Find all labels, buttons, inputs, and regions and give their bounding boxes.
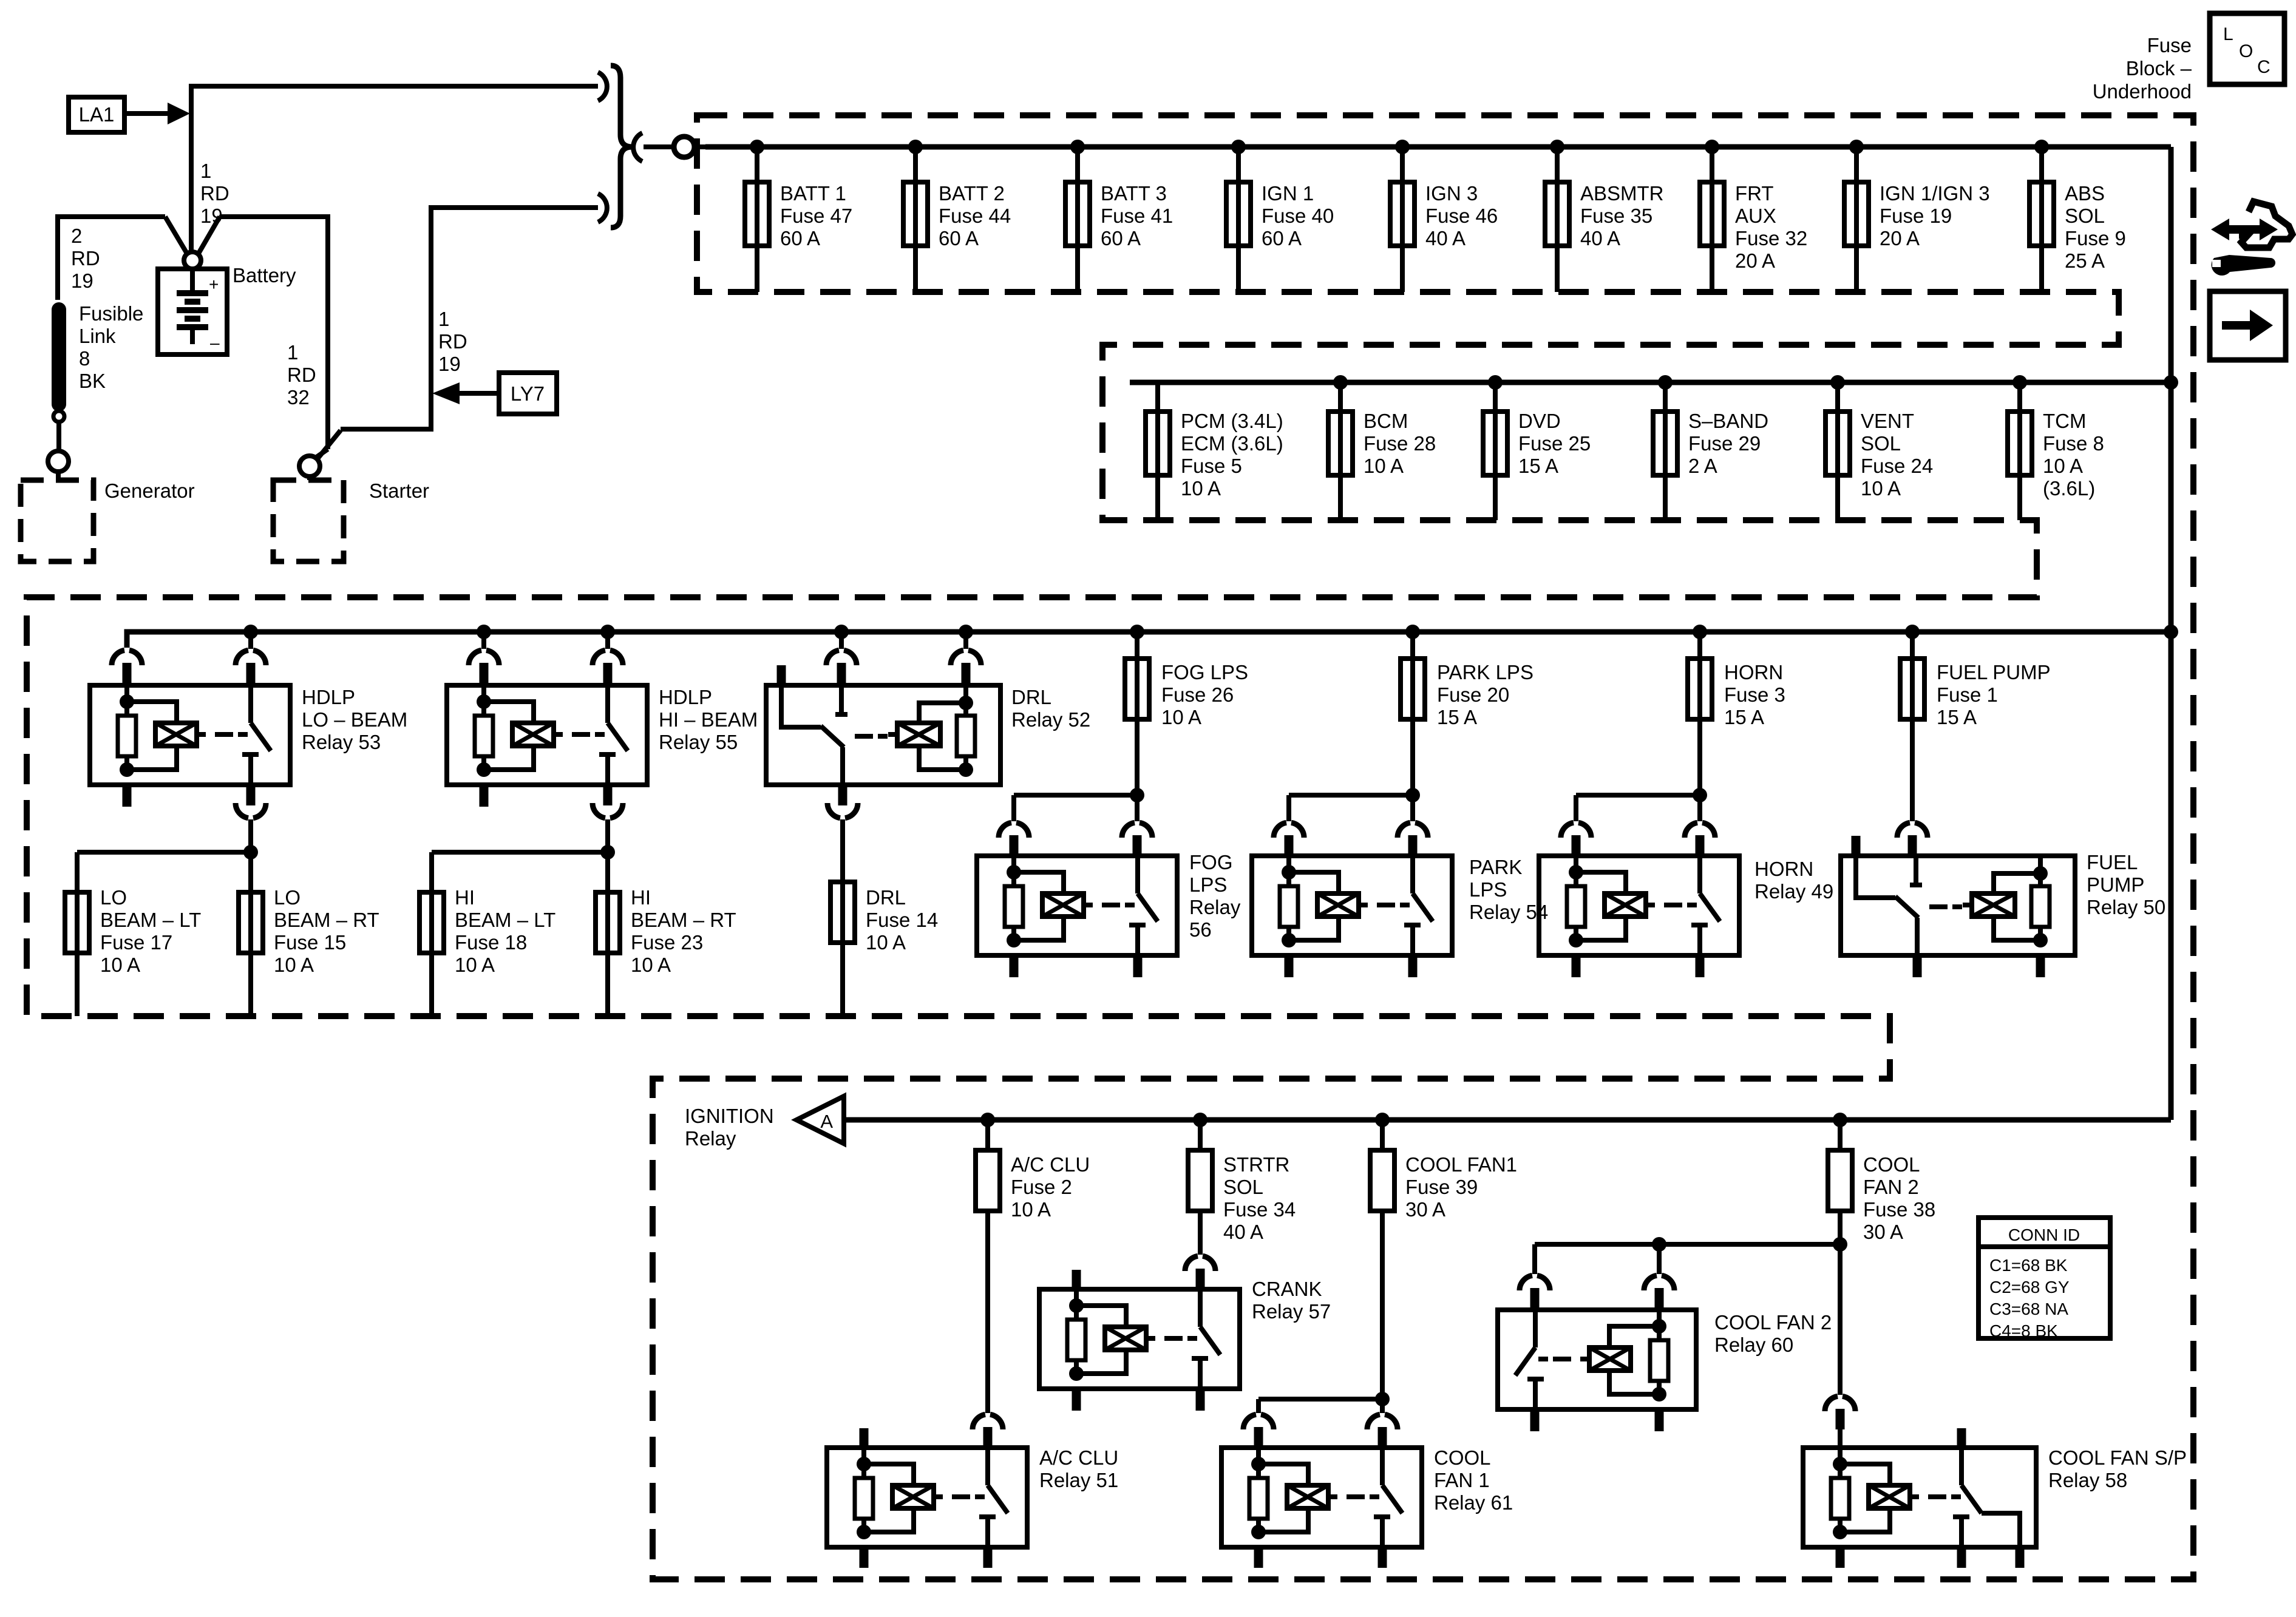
wire fuse 2327 to relay pins — [1274, 719, 1428, 856]
svg-text:BATT 2: BATT 2 — [939, 182, 1005, 205]
svg-text:Battery: Battery — [233, 264, 296, 286]
fusible link 8 BK — [52, 302, 66, 450]
node HI BEAM feed — [600, 845, 615, 859]
svg-text:Fuse 34: Fuse 34 — [1223, 1198, 1296, 1221]
svg-text:A/C CLU: A/C CLU — [1011, 1153, 1090, 1176]
label fuse 14 — [866, 886, 938, 954]
svg-text:56: 56 — [1189, 918, 1212, 941]
svg-text:IGNITION: IGNITION — [685, 1105, 774, 1127]
label fuse TCM — [2043, 410, 2104, 500]
svg-text:BEAM – LT: BEAM – LT — [455, 909, 555, 931]
pass-through terminal — [674, 137, 695, 157]
svg-text:Relay 50: Relay 50 — [2087, 896, 2165, 918]
wire fuse column 2565 — [1555, 147, 1560, 292]
svg-text:2: 2 — [71, 225, 82, 247]
svg-text:15 A: 15 A — [1518, 455, 1558, 477]
label fuse IGN 3 — [1425, 182, 1498, 249]
label fuse A/C CLU — [1011, 1153, 1090, 1221]
wire fuse column 3363 — [2039, 147, 2044, 292]
junction node bus1 x2820 — [1705, 140, 1719, 154]
svg-text:BK: BK — [79, 370, 106, 392]
svg-text:40 A: 40 A — [1425, 227, 1466, 249]
svg-text:Fusible: Fusible — [79, 302, 143, 325]
label relay 56 — [1189, 851, 1241, 941]
svg-text:IGN 1/IGN 3: IGN 1/IGN 3 — [1880, 182, 1990, 205]
wire fuse column 1247 — [755, 147, 759, 292]
bus B+ top fuse row — [705, 144, 2171, 150]
wire fuse column 2800 — [1697, 632, 1702, 659]
junction node bus3/right bus — [2164, 625, 2178, 639]
svg-text:IGN 3: IGN 3 — [1425, 182, 1478, 205]
svg-text:Fuse 44: Fuse 44 — [939, 205, 1011, 227]
svg-text:C2=68 GY: C2=68 GY — [1989, 1278, 2070, 1297]
junction node ign bus x2277 — [1375, 1113, 1390, 1127]
svg-text:LA1: LA1 — [79, 103, 115, 126]
svg-text:TCM: TCM — [2043, 410, 2086, 432]
svg-text:10 A: 10 A — [1011, 1198, 1051, 1221]
label relay 61 — [1434, 1446, 1513, 1514]
label fuse PCM (3.4L) — [1181, 410, 1283, 500]
svg-text:10 A: 10 A — [455, 954, 495, 976]
label relay 57 — [1252, 1278, 1331, 1323]
relay 53 coil ground stub — [123, 785, 132, 807]
svg-text:HDLP: HDLP — [302, 686, 355, 708]
wire fuse 38 to relays 60/58 — [1520, 1211, 1855, 1448]
wire fuse column 3327 — [2017, 382, 2022, 520]
relay 53 HDLP LO-BEAM — [90, 685, 290, 785]
wire to generator branch — [58, 217, 188, 300]
label 2 RD 19 — [71, 225, 100, 292]
svg-text:8: 8 — [79, 347, 90, 370]
svg-text:Fuse 40: Fuse 40 — [1262, 205, 1334, 227]
svg-text:Relay 49: Relay 49 — [1754, 880, 1833, 903]
starter dashed box — [273, 480, 344, 561]
svg-text:HDLP: HDLP — [659, 686, 712, 708]
bus relay feed — [127, 632, 2171, 648]
svg-text:ABS: ABS — [2065, 182, 2105, 205]
svg-text:DVD: DVD — [1518, 410, 1561, 432]
relay 52 switch output — [827, 785, 858, 882]
wire fuse 34 to relay 57 switch — [1185, 1211, 1215, 1289]
relay 55 coil ground stub — [480, 785, 489, 807]
svg-text:Fuse 32: Fuse 32 — [1735, 227, 1807, 249]
label 1 RD 19 (starter feed) — [438, 308, 467, 375]
svg-text:Fuse 23: Fuse 23 — [631, 931, 703, 954]
fuse PARK LPS — [1401, 659, 1425, 719]
svg-text:Generator: Generator — [104, 480, 195, 502]
fuse A/C CLU Fuse 2 — [976, 1120, 1000, 1211]
svg-text:–: – — [210, 333, 220, 352]
fuse FRT AUX — [1700, 182, 1724, 246]
svg-text:LO: LO — [274, 886, 301, 909]
svg-text:10 A: 10 A — [866, 931, 906, 954]
svg-text:BEAM – RT: BEAM – RT — [274, 909, 379, 931]
label relay 53 — [302, 686, 407, 753]
svg-text:ECM (3.6L): ECM (3.6L) — [1181, 432, 1283, 455]
svg-text:LPS: LPS — [1189, 873, 1227, 896]
svg-text:1: 1 — [438, 308, 449, 330]
fuse ABS SOL — [2029, 182, 2054, 246]
svg-text:Fuse 26: Fuse 26 — [1161, 683, 1234, 706]
svg-text:Fuse 18: Fuse 18 — [455, 931, 527, 954]
wire bus to relay 52 coil — [951, 625, 981, 685]
arrow from LY7 — [432, 382, 499, 404]
wire battery positive to splice (top) — [191, 86, 598, 252]
svg-text:FAN 2: FAN 2 — [1863, 1176, 1919, 1198]
svg-text:60 A: 60 A — [939, 227, 979, 249]
node LO BEAM feed — [243, 845, 258, 859]
svg-text:C4=8 BK: C4=8 BK — [1989, 1321, 2058, 1340]
relay 54 PARK LPS — [1252, 856, 1452, 955]
svg-text:Fuse 17: Fuse 17 — [100, 931, 172, 954]
junction node bus3 x2327 — [1405, 625, 1420, 639]
svg-text:FOG LPS: FOG LPS — [1161, 661, 1248, 683]
svg-text:Fuse 3: Fuse 3 — [1724, 683, 1785, 706]
svg-text:Fuse 28: Fuse 28 — [1364, 432, 1436, 455]
svg-text:20 A: 20 A — [1880, 227, 1920, 249]
wire fuse column 2743 — [1663, 382, 1668, 520]
junction node bus2 x3327 — [2012, 375, 2027, 390]
bus second fuse row — [1130, 380, 2171, 385]
wire battery to starter 1 RD 32 — [197, 217, 328, 459]
connector label LA1 — [69, 97, 124, 132]
fuse BATT 1 — [745, 182, 769, 246]
svg-text:60 A: 60 A — [780, 227, 820, 249]
svg-text:IGN 1: IGN 1 — [1262, 182, 1314, 205]
svg-text:COOL FAN 2: COOL FAN 2 — [1714, 1311, 1832, 1334]
relay 50 bottom stubs — [1917, 955, 2040, 977]
junction node bus1 x2040 — [1231, 140, 1246, 154]
wire fuse column 1508 — [913, 147, 918, 292]
generator dashed box — [21, 480, 93, 561]
label fuse 18 — [455, 886, 555, 976]
svg-text:Fuse 5: Fuse 5 — [1181, 455, 1242, 477]
svg-text:HI: HI — [455, 886, 475, 909]
junction node bus2 x2743 — [1658, 375, 1673, 390]
svg-text:10 A: 10 A — [631, 954, 671, 976]
svg-text:FAN 1: FAN 1 — [1434, 1469, 1490, 1491]
label relay 60 — [1714, 1311, 1832, 1356]
svg-text:Relay: Relay — [1189, 896, 1241, 918]
svg-text:Fuse 24: Fuse 24 — [1861, 455, 1933, 477]
svg-text:25 A: 25 A — [2065, 249, 2105, 272]
wire fuse column 2310 — [1400, 147, 1405, 292]
svg-text:PUMP: PUMP — [2087, 873, 2144, 896]
svg-text:Fuse 9: Fuse 9 — [2065, 227, 2126, 249]
label fuse FRT AUX — [1735, 182, 1807, 272]
label relay 54 — [1469, 856, 1548, 923]
engine label LY7 — [499, 373, 557, 414]
svg-text:BATT 1: BATT 1 — [780, 182, 846, 205]
svg-text:10 A: 10 A — [100, 954, 140, 976]
wire fuse column 1775 — [1075, 147, 1080, 292]
svg-text:15 A: 15 A — [1724, 706, 1764, 728]
svg-text:LO – BEAM: LO – BEAM — [302, 708, 407, 731]
wire fuse column 2463 — [1493, 382, 1498, 520]
label relay 58 — [2048, 1446, 2187, 1491]
svg-text:10 A: 10 A — [1161, 706, 1201, 728]
relay 49 bottom stubs — [1576, 955, 1700, 977]
svg-text:C1=68 BK: C1=68 BK — [1989, 1256, 2068, 1275]
label fuse PARK LPS — [1437, 661, 1533, 728]
fuse DRL Fuse 14 — [830, 882, 855, 1016]
svg-text:BEAM – LT: BEAM – LT — [100, 909, 201, 931]
svg-text:COOL: COOL — [1434, 1446, 1491, 1469]
junction node bus1 x1247 — [750, 140, 764, 154]
fuse BATT 2 — [903, 182, 928, 246]
svg-text:LO: LO — [100, 886, 127, 909]
junction node bus3 x2800 — [1693, 625, 1707, 639]
label fuse 23 — [631, 886, 736, 976]
svg-text:20 A: 20 A — [1735, 249, 1775, 272]
fuse LO BEAM - RT Fuse 15 — [239, 892, 263, 1016]
svg-text:30 A: 30 A — [1863, 1221, 1903, 1243]
label relay 52 — [1011, 686, 1090, 731]
battery positive terminal — [184, 252, 201, 269]
svg-text:PCM (3.4L): PCM (3.4L) — [1181, 410, 1283, 432]
relay 52 DRL — [766, 665, 1000, 785]
relay 58 COOL FAN S/P — [1803, 1448, 2036, 1547]
fuse FOG LPS — [1125, 659, 1149, 719]
svg-text:Fuse 8: Fuse 8 — [2043, 432, 2104, 455]
svg-text:Fuse 25: Fuse 25 — [1518, 432, 1591, 455]
svg-text:10 A: 10 A — [2043, 455, 2083, 477]
svg-text:15 A: 15 A — [1937, 706, 1977, 728]
svg-text:Fuse 2: Fuse 2 — [1011, 1176, 1072, 1198]
label fuse FUEL PUMP — [1937, 661, 2051, 728]
wire fuse column 2208 — [1338, 382, 1343, 520]
label fuse HORN — [1724, 661, 1785, 728]
fuse IGN 1 — [1226, 182, 1251, 246]
relay 54 bottom stubs — [1289, 955, 1413, 977]
relay 50 FUEL PUMP — [1841, 836, 2075, 955]
label relay 51 — [1039, 1446, 1118, 1491]
relay 55 switch output — [593, 785, 623, 852]
label 1 RD 19 (battery feed) — [200, 160, 229, 227]
svg-text:HI – BEAM: HI – BEAM — [659, 708, 758, 731]
svg-text:Relay: Relay — [685, 1127, 736, 1150]
junction node bus1 x2565 — [1550, 140, 1564, 154]
svg-text:SOL: SOL — [1861, 432, 1901, 455]
svg-text:HI: HI — [631, 886, 651, 909]
svg-text:Fuse 47: Fuse 47 — [780, 205, 852, 227]
svg-text:Relay 61: Relay 61 — [1434, 1491, 1513, 1514]
ignition relay triangle A — [796, 1096, 844, 1144]
wire bus to relay 53 switch — [236, 625, 266, 685]
label relay 55 — [659, 686, 758, 753]
svg-text:CONN ID: CONN ID — [2008, 1225, 2080, 1244]
svg-text:Fuse 35: Fuse 35 — [1580, 205, 1652, 227]
relay 58 switch dead stub — [1957, 1428, 1966, 1448]
svg-text:Block –: Block – — [2126, 57, 2192, 80]
wire splice to fuse block — [644, 144, 674, 149]
wire fuse 39 to relay 61 — [1243, 1211, 1398, 1448]
svg-text:DRL: DRL — [866, 886, 906, 909]
svg-text:RD: RD — [200, 182, 229, 205]
svg-text:Starter: Starter — [369, 480, 429, 502]
svg-text:Fuse 1: Fuse 1 — [1937, 683, 1998, 706]
svg-text:S–BAND: S–BAND — [1688, 410, 1768, 432]
svg-text:HORN: HORN — [1724, 661, 1783, 683]
fuse IGN 1/IGN 3 — [1844, 182, 1869, 246]
svg-text:FUEL: FUEL — [2087, 851, 2138, 873]
svg-text:VENT: VENT — [1861, 410, 1914, 432]
svg-text:O: O — [2239, 41, 2253, 61]
label fuse BCM — [1364, 410, 1436, 477]
relay 60 COOL FAN 2 — [1498, 1310, 1696, 1409]
relay 51 bottom stubs — [864, 1547, 988, 1568]
fuse HI BEAM - RT Fuse 23 — [596, 892, 620, 1016]
junction node bus1 x1508 — [908, 140, 923, 154]
wire fuse 1 to relay 50 switch — [1897, 719, 1927, 856]
svg-text:FOG: FOG — [1189, 851, 1233, 873]
svg-text:COOL FAN S/P: COOL FAN S/P — [2048, 1446, 2187, 1469]
relay 57 coil dead stub — [1072, 1270, 1081, 1289]
svg-text:1: 1 — [287, 341, 298, 364]
svg-text:Fuse: Fuse — [2147, 34, 2192, 56]
relay 61 bottom stubs — [1258, 1547, 1382, 1568]
svg-text:(3.6L): (3.6L) — [2043, 477, 2095, 500]
svg-text:Relay 57: Relay 57 — [1252, 1300, 1331, 1323]
svg-text:SOL: SOL — [2065, 205, 2105, 227]
svg-text:AUX: AUX — [1735, 205, 1776, 227]
junction node ign bus x1627 — [980, 1113, 995, 1127]
relay 58 bottom stubs — [1840, 1547, 2020, 1568]
relay 51 A/C CLU — [827, 1448, 1027, 1547]
bus right vertical — [2169, 147, 2174, 1120]
wire fuse 1873 to relay pins — [999, 719, 1152, 856]
fuse LO BEAM - LT Fuse 17 — [65, 892, 89, 1016]
svg-text:Fuse 19: Fuse 19 — [1880, 205, 1952, 227]
arrow from LA1 — [124, 103, 190, 124]
svg-text:COOL: COOL — [1863, 1153, 1920, 1176]
label IGNITION Relay — [685, 1105, 774, 1150]
relay 56 bottom stubs — [1014, 955, 1138, 977]
svg-text:10 A: 10 A — [274, 954, 314, 976]
junction node bus1 x1775 — [1070, 140, 1085, 154]
label fuse BATT 1 — [780, 182, 852, 249]
junction node bus2 x3027 — [1830, 375, 1845, 390]
label fuse ABS SOL — [2065, 182, 2126, 272]
junction node bus1 x2310 — [1395, 140, 1410, 154]
relay 57 CRANK — [1039, 1289, 1240, 1389]
svg-text:Relay 55: Relay 55 — [659, 731, 738, 753]
fuse COOL FAN 2 — [1828, 1120, 1852, 1211]
svg-text:Fuse 39: Fuse 39 — [1405, 1176, 1478, 1198]
wire starter feed to splice (LY7) — [317, 208, 598, 459]
wire to LO BEAM fuses — [77, 850, 251, 855]
wire fuse column 1907 — [1155, 382, 1160, 520]
svg-text:Relay 54: Relay 54 — [1469, 901, 1548, 923]
fuse COOL FAN1 Fuse 39 — [1370, 1120, 1394, 1211]
label fuse DVD — [1518, 410, 1591, 477]
svg-text:STRTR: STRTR — [1223, 1153, 1289, 1176]
junction node bus1 x3363 — [2034, 140, 2049, 154]
svg-text:PARK LPS: PARK LPS — [1437, 661, 1533, 683]
svg-text:LPS: LPS — [1469, 878, 1507, 901]
label fuse IGN 1 — [1262, 182, 1334, 249]
wire bus to relay 52 switch — [826, 625, 857, 685]
vehicle with wrench icon — [2211, 202, 2292, 276]
generator ring terminal — [48, 451, 69, 472]
fuse HI BEAM - LT Fuse 18 — [419, 892, 444, 1016]
svg-text:10 A: 10 A — [1364, 455, 1404, 477]
label fuse ABSMTR — [1580, 182, 1664, 249]
svg-text:19: 19 — [438, 353, 461, 375]
svg-text:Relay 51: Relay 51 — [1039, 1469, 1118, 1491]
svg-text:Link: Link — [79, 325, 116, 347]
wire fuse 2800 to relay pins — [1561, 719, 1715, 856]
svg-text:60 A: 60 A — [1101, 227, 1141, 249]
svg-text:CRANK: CRANK — [1252, 1278, 1322, 1300]
svg-text:RD: RD — [287, 364, 316, 386]
svg-text:ABSMTR: ABSMTR — [1580, 182, 1664, 205]
label relay 49 — [1754, 858, 1833, 903]
svg-text:C: C — [2257, 57, 2271, 77]
svg-text:Fuse 20: Fuse 20 — [1437, 683, 1509, 706]
junction node bus3 x3150 — [1905, 625, 1920, 639]
label fuse 15 — [274, 886, 379, 976]
forward arrow icon box — [2210, 291, 2286, 360]
svg-text:10 A: 10 A — [1861, 477, 1901, 500]
svg-text:BEAM – RT: BEAM – RT — [631, 909, 736, 931]
svg-text:Relay 60: Relay 60 — [1714, 1334, 1793, 1356]
junction node bus3 x1873 — [1130, 625, 1144, 639]
svg-text:Relay 58: Relay 58 — [2048, 1469, 2127, 1491]
junction node ign bus x3031 — [1833, 1113, 1847, 1127]
label 1 RD 32 — [287, 341, 316, 408]
svg-text:Fuse 46: Fuse 46 — [1425, 205, 1498, 227]
fuse PCM (3.4L) — [1146, 412, 1170, 475]
svg-text:Fuse 29: Fuse 29 — [1688, 432, 1761, 455]
svg-text:15 A: 15 A — [1437, 706, 1477, 728]
svg-text:C3=68 NA: C3=68 NA — [1989, 1300, 2068, 1318]
svg-text:Fuse 14: Fuse 14 — [866, 909, 938, 931]
wire fuse column 2327 — [1410, 632, 1415, 659]
CONN ID table — [1978, 1218, 2110, 1340]
svg-text:RD: RD — [71, 247, 100, 269]
label fuse BATT 3 — [1101, 182, 1173, 249]
wire fuse column 2820 — [1710, 147, 1714, 292]
svg-text:2 A: 2 A — [1688, 455, 1717, 477]
svg-text:Fuse 15: Fuse 15 — [274, 931, 346, 954]
svg-text:RD: RD — [438, 330, 467, 353]
wire fuse column 2040 — [1236, 147, 1241, 292]
fuse IGN 3 — [1390, 182, 1415, 246]
junction node bus2 x2463 — [1488, 375, 1503, 390]
LOC icon box — [2210, 13, 2284, 84]
relay 61 COOL FAN 1 — [1221, 1448, 1422, 1547]
svg-text:COOL FAN1: COOL FAN1 — [1405, 1153, 1517, 1176]
svg-text:19: 19 — [200, 205, 223, 227]
junction node ign bus x1977 — [1193, 1113, 1207, 1127]
svg-text:A/C CLU: A/C CLU — [1039, 1446, 1118, 1469]
label Fusible Link 8 BK — [79, 302, 143, 392]
relay 53 switch output — [236, 785, 266, 852]
relay 60 bottom stubs — [1535, 1409, 1659, 1431]
svg-text:A: A — [820, 1111, 833, 1132]
fuse FUEL PUMP — [1900, 659, 1924, 719]
relay 55 HDLP HI-BEAM — [447, 685, 647, 785]
relay 56 FOG LPS — [977, 856, 1177, 955]
svg-text:10 A: 10 A — [1181, 477, 1221, 500]
wire fuse column 3150 — [1910, 632, 1915, 659]
battery — [158, 269, 227, 354]
label fuse 17 — [100, 886, 201, 976]
fuse STRTR SOL — [1188, 1120, 1212, 1211]
wire fuse 2 to relay 51 switch — [973, 1211, 1003, 1448]
fuse HORN — [1688, 659, 1712, 719]
